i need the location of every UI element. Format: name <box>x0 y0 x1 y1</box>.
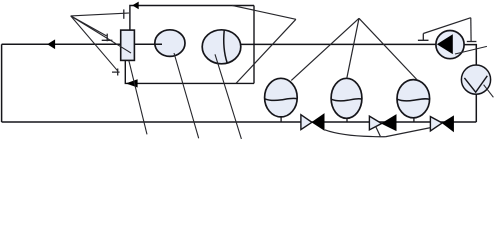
bar terminator pump outlet <box>467 41 477 43</box>
leader fan 4 (pump inlet/outlet marks) <box>423 18 471 42</box>
leader line to bottom bar <box>71 16 118 71</box>
leader line to middle bar <box>71 16 107 36</box>
leader from funnel gauge to label below right <box>484 85 494 98</box>
wire recirculation loop top pipe <box>130 6 254 31</box>
flow meter FI (circle, drawn under main line) <box>155 30 185 57</box>
flow arrow on main line <box>48 40 55 49</box>
wire pump outlet and right drop <box>464 45 476 122</box>
leader line to loop top pipe <box>232 5 296 19</box>
control valve body (rectangle) <box>121 30 135 60</box>
leader line to loop bottom pipe <box>236 19 296 83</box>
drain valve V1 (bowtie) <box>301 114 324 131</box>
wire left riser <box>1 44 3 122</box>
wire recirculation loop right pipe <box>253 6 255 84</box>
leader from sight glass to label below <box>215 54 241 139</box>
wire main supply line (left segment) <box>2 43 162 45</box>
leader line to top bar <box>71 13 129 16</box>
leader line to tank T1 <box>291 18 359 80</box>
leader line to valve body <box>71 16 131 53</box>
drain valve V2 (bowtie) <box>369 115 396 131</box>
wire recirculation loop bottom pipe <box>125 60 254 83</box>
leader fan 1 apex <box>71 13 131 71</box>
bar terminator pump inlet <box>418 34 429 41</box>
leader line to pump outlet bar <box>470 18 472 42</box>
leader fan 2 (points to tanks) <box>291 18 417 80</box>
leader fan 3 (points to loop pipes) <box>232 5 296 83</box>
funnel gauge (circle with V) <box>461 65 490 94</box>
leader from flow meter to label below <box>174 53 199 138</box>
flow arrow on loop bottom pipe <box>127 80 138 87</box>
tank T2 (circle with liquid level) <box>331 78 362 122</box>
hose link from valve V2 <box>376 127 381 137</box>
leader pointing at pump from right <box>455 46 487 54</box>
leader line to tank T3 <box>359 18 417 79</box>
bar terminator bottom <box>112 69 120 76</box>
wire bottom return line <box>2 121 477 123</box>
tank T3 (circle with liquid level) <box>397 80 430 122</box>
bar terminator top <box>123 9 125 18</box>
drain valve V3 (bowtie) <box>430 116 453 132</box>
sight glass (large circle with internal arc) <box>202 30 241 64</box>
pump P1 (circle with triangle) <box>436 30 464 58</box>
flow arrow on loop top pipe <box>133 2 139 9</box>
bar terminator middle <box>102 34 113 42</box>
hose connector curve between drain valves <box>325 128 431 137</box>
tank T1 (circle with liquid level) <box>265 78 298 122</box>
leader line to tank T2 <box>347 18 359 78</box>
wire main line (middle segment) <box>241 43 436 45</box>
leader line to pump inlet bar <box>423 18 471 34</box>
leader from valve body to label below <box>129 60 147 134</box>
